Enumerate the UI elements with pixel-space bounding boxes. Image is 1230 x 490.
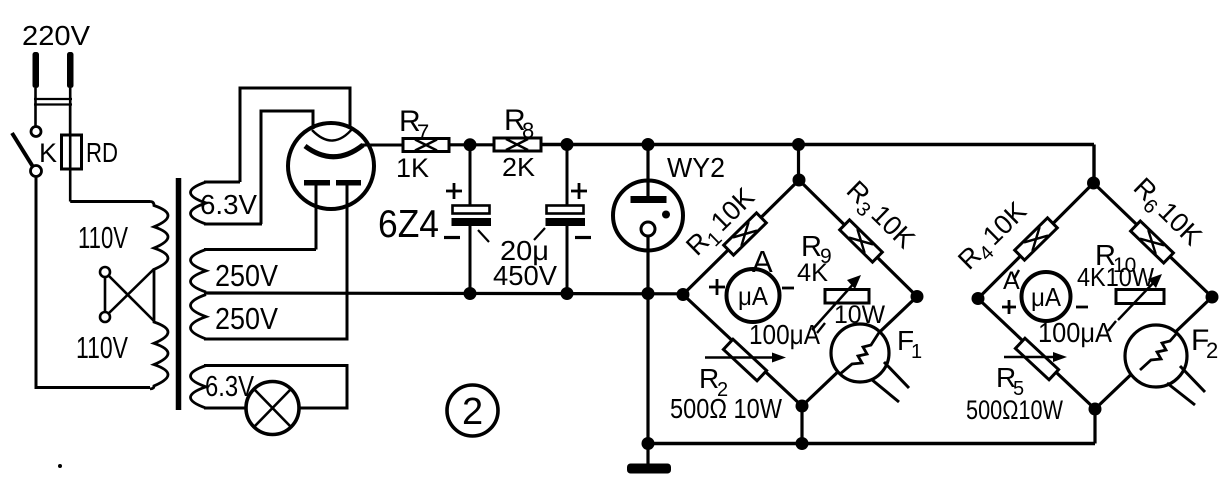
svg-text:4K10W: 4K10W	[1077, 262, 1154, 292]
svg-text:6.3V: 6.3V	[205, 371, 255, 403]
svg-text:6.3V: 6.3V	[200, 189, 257, 220]
svg-text:6Z4: 6Z4	[378, 203, 439, 246]
svg-text:450V: 450V	[493, 260, 557, 291]
svg-text:500Ω10W: 500Ω10W	[966, 395, 1063, 425]
svg-text:4K: 4K	[797, 259, 828, 287]
svg-text:WY2: WY2	[667, 152, 725, 183]
svg-text:110V: 110V	[76, 330, 128, 365]
svg-text:μA: μA	[738, 281, 769, 311]
svg-text:μA: μA	[1031, 282, 1062, 312]
svg-text:RD: RD	[86, 137, 118, 168]
svg-text:2K: 2K	[502, 152, 536, 182]
svg-text:220V: 220V	[22, 20, 90, 51]
svg-text:1K: 1K	[396, 153, 429, 183]
svg-text:K: K	[39, 138, 57, 168]
svg-text:1: 1	[911, 341, 922, 363]
svg-text:10W: 10W	[834, 301, 885, 329]
svg-text:250V: 250V	[215, 301, 278, 336]
svg-text:100μA: 100μA	[1038, 317, 1112, 348]
svg-text:250V: 250V	[215, 258, 278, 293]
svg-text:500Ω 10W: 500Ω 10W	[670, 393, 782, 424]
svg-text:A: A	[752, 244, 773, 279]
svg-text:8: 8	[522, 118, 534, 143]
svg-text:110V: 110V	[78, 220, 128, 255]
svg-text:2: 2	[1206, 338, 1218, 363]
svg-text:100μA: 100μA	[749, 319, 820, 350]
svg-text:7: 7	[417, 120, 429, 145]
svg-text:2: 2	[462, 391, 483, 433]
